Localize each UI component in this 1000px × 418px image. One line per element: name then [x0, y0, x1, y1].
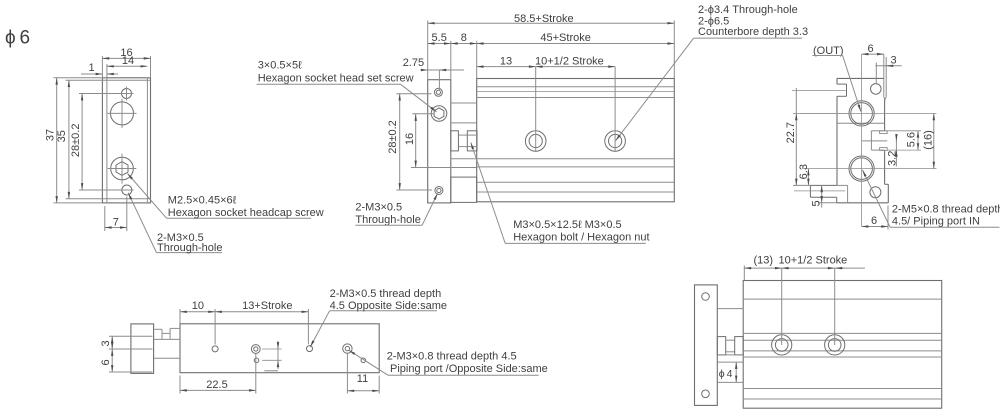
view2 dimension 58.5+Stroke: [428, 13, 675, 80]
view2 body profile line b: [477, 91, 675, 93]
view5 dimension 10+1/2 Stroke: [779, 255, 865, 269]
view3 dimension 22.7: [785, 88, 849, 185]
view1 plate inner right edge line: [146, 78, 148, 203]
view4 hole C thread hole: [307, 346, 313, 352]
view4 dimension 6: [100, 349, 153, 372]
view2 plate hole bottom (2-M3 through-hole): [435, 187, 443, 195]
view4 cylinder body outline: [180, 324, 379, 373]
view2 cylinder body outline: [477, 79, 675, 202]
svg-text:16: 16: [404, 133, 416, 145]
view5 bolt head: [717, 337, 725, 355]
view4 hole D piping port: [343, 344, 352, 353]
svg-text:Hexagon bolt / Hexagon nut: Hexagon bolt / Hexagon nut: [513, 231, 649, 243]
view1 leader and label hexagon socket headcap screw: [128, 174, 324, 220]
svg-text:5.6: 5.6: [906, 132, 918, 147]
view3 slot at right edge: [884, 54, 886, 100]
svg-text:45+Stroke: 45+Stroke: [540, 32, 590, 44]
view4 rod plate outline: [131, 324, 154, 374]
view3 vertical centerline: [861, 54, 863, 226]
svg-text:58.5+Stroke: 58.5+Stroke: [514, 13, 574, 25]
view1 bore size label phi6: [5, 28, 30, 49]
svg-text:6.3: 6.3: [798, 164, 810, 179]
view2 body profile line a: [477, 86, 675, 88]
view3 rod bore lower (IN): [849, 156, 874, 181]
svg-text:(16): (16): [923, 130, 935, 150]
view1 hole H1 small through-hole top: [120, 87, 134, 101]
view1 end plate outline: [102, 78, 150, 203]
view3 body left edge upper: [836, 78, 838, 84]
view3 body right edge: [884, 99, 886, 184]
view2 leader and label 2-M3x0.5 through-hole: [355, 193, 437, 226]
svg-text:Hexagon socket head set screw: Hexagon socket head set screw: [258, 73, 414, 85]
svg-text:2-M3×0.5 thread depth: 2-M3×0.5 thread depth: [330, 288, 442, 300]
view5 body profile line d: [743, 350, 942, 352]
svg-text:2-ϕ3.4 Through-hole: 2-ϕ3.4 Through-hole: [698, 4, 798, 16]
view2 plate hole top (2-M3 through-hole): [434, 88, 442, 96]
view2 body profile line f: [477, 181, 675, 183]
view3 dimension 6.3: [798, 164, 810, 185]
view4 guide block bottom line: [154, 357, 180, 359]
svg-text:2-M3×0.8 thread depth 4.5: 2-M3×0.8 thread depth 4.5: [387, 351, 517, 363]
svg-text:10+1/2 Stroke: 10+1/2 Stroke: [535, 55, 604, 67]
svg-text:(13): (13): [754, 255, 774, 267]
svg-text:Hexagon socket headcap screw: Hexagon socket headcap screw: [168, 207, 324, 219]
view5 dimension phi4: [719, 362, 737, 382]
svg-text:5.5: 5.5: [432, 32, 447, 44]
view4 leader and label 2-M3x0.5 thread depth: [310, 288, 447, 347]
view3 dimension 3: [875, 55, 901, 84]
svg-text:5: 5: [811, 200, 823, 206]
view1 dimension 7: [105, 197, 127, 232]
view2 dimension 5.5: [428, 32, 451, 80]
view5 bolt nut: [735, 337, 744, 355]
svg-text:22.7: 22.7: [785, 122, 797, 143]
svg-text:ϕ 4: ϕ 4: [719, 368, 733, 380]
view2 bolt shank lines: [458, 135, 467, 147]
view1 plate inner top line: [102, 79, 150, 81]
view4 bolt head: [154, 329, 162, 333]
view2 centerline right hole: [614, 67, 616, 152]
view5 centerline right: [834, 268, 836, 345]
view1 dimension 14: [107, 55, 147, 78]
view3 OUT port centerline: [792, 89, 846, 91]
view1 plate inner left edge line: [106, 78, 108, 203]
view5 piston bore right: [825, 335, 845, 355]
view2 body profile line c: [477, 97, 675, 99]
view3 screw hole top: [871, 84, 882, 95]
view1 dimension 37: [45, 78, 103, 203]
view5 centerline left: [781, 268, 783, 345]
view3 upper bore horizontal centerline: [800, 112, 875, 114]
view2 body profile line d: [477, 158, 675, 160]
view2 hexagon nut: [467, 131, 477, 151]
view2 centerline left hole: [535, 67, 537, 152]
svg-text:37: 37: [45, 129, 57, 141]
view4 nut: [170, 328, 180, 333]
view2 dimension 16: [404, 114, 477, 168]
view2 body profile line g: [477, 191, 675, 193]
svg-text:M3×0.5×12.5ℓ M3×0.5: M3×0.5×12.5ℓ M3×0.5: [513, 219, 621, 231]
view4 dimension 3: [100, 336, 153, 349]
view3 dimension 6 bottom: [862, 206, 888, 230]
view3 dimension 5.6: [885, 131, 921, 150]
view2 rod plate outline: [428, 80, 451, 203]
svg-text:4.5/ Piping port IN: 4.5/ Piping port IN: [892, 215, 980, 227]
svg-text:ϕ 6: ϕ 6: [5, 28, 30, 49]
svg-text:7: 7: [113, 217, 119, 229]
view5 plate hole top: [702, 293, 710, 301]
svg-text:28±0.2: 28±0.2: [387, 120, 399, 154]
view5 body profile line f: [743, 388, 942, 390]
view3 IN port centerline: [794, 190, 845, 192]
view2 dimension 10+1/2 Stroke: [535, 55, 615, 67]
view5 body profile line c: [743, 339, 942, 341]
view4 dimension 22.5: [180, 354, 256, 394]
view4 dimension 10: [180, 300, 215, 345]
view5 body profile line g: [743, 398, 942, 400]
view5 bolt shank lines: [726, 340, 735, 352]
view3 IN port boss: [810, 185, 837, 202]
view3 nut pocket: [862, 131, 887, 151]
view2 dimension 45+Stroke: [477, 32, 675, 79]
svg-text:22.5: 22.5: [206, 379, 227, 391]
view4 bolt base line: [154, 333, 180, 339]
view5 gap top line: [717, 308, 743, 310]
view5 body profile line a: [743, 298, 942, 300]
view2 leader and label hexagon socket head set screw: [257, 60, 437, 112]
svg-text:13+Stroke: 13+Stroke: [242, 300, 292, 312]
view4 bolt shank line: [162, 332, 170, 334]
svg-text:11: 11: [357, 373, 368, 385]
svg-text:Counterbore depth 3.3: Counterbore depth 3.3: [698, 26, 808, 38]
view2 body profile line e: [477, 166, 675, 168]
view1 leader and label 2-M3x0.5 through-hole: [128, 193, 222, 254]
svg-text:14: 14: [122, 55, 134, 67]
view4 offset mini dimension: [262, 341, 282, 371]
view2 dimension 13: [477, 55, 536, 67]
view1 dimension 16: [102, 47, 150, 78]
svg-text:35: 35: [56, 130, 68, 142]
view2 boss band upper line between plate and body: [451, 122, 477, 124]
view2 leader and label M3 hexagon bolt and nut: [471, 143, 650, 244]
svg-text:8: 8: [461, 32, 467, 44]
view4 hole B2 small: [254, 358, 259, 363]
view1 plate inner bottom line: [102, 198, 150, 200]
svg-text:10+1/2 Stroke: 10+1/2 Stroke: [779, 255, 848, 267]
view2 set screw hole: [431, 106, 447, 122]
view1 hole H3 rod hole lower with hexagon socket screw: [108, 154, 137, 184]
svg-text:Piping port /Opposite Side:sam: Piping port /Opposite Side:same: [390, 363, 548, 375]
svg-text:3×0.5×5ℓ: 3×0.5×5ℓ: [258, 60, 302, 72]
svg-text:3: 3: [890, 55, 896, 67]
view5 guide rod band line b: [717, 361, 743, 363]
svg-text:2-M5×0.8 thread depth: 2-M5×0.8 thread depth: [892, 204, 1000, 216]
view3 dimension (16): [875, 113, 937, 168]
svg-text:13: 13: [500, 55, 512, 67]
view3 leader and label 2-M5 piping port IN: [863, 170, 1000, 227]
view3 dimension 5: [811, 185, 837, 207]
view4 dimension 11: [347, 354, 379, 394]
svg-text:6: 6: [100, 359, 112, 365]
view2 hexagon bolt head: [451, 131, 459, 151]
view3 IN port interior top line: [837, 185, 848, 202]
svg-text:28±0.2: 28±0.2: [70, 124, 82, 158]
view3 bottom-right step: [885, 184, 889, 203]
view5 piston bore left: [772, 335, 792, 355]
view3 body bottom edge: [837, 202, 889, 204]
svg-text:1: 1: [88, 62, 94, 74]
view3 body outline top edge: [837, 77, 884, 79]
view4 hole D2 small: [361, 358, 366, 363]
view5 rod plate outline: [695, 285, 718, 406]
view3 central boss line: [837, 122, 885, 124]
svg-text:3.2: 3.2: [886, 151, 898, 166]
view2 boss band lower line between plate and body: [451, 158, 477, 160]
view3 lower bore horizontal centerline: [802, 168, 875, 170]
view2 dimension 28 plus-minus 0.2: [387, 94, 432, 190]
view5 guide rod band line a: [717, 354, 743, 356]
view2 dimension 2.75: [403, 57, 464, 91]
view5 cylinder body outline: [743, 281, 942, 409]
svg-text:3: 3: [100, 340, 112, 346]
svg-text:2.75: 2.75: [403, 57, 424, 69]
view2 leader and label counterbore through-holes: [616, 4, 808, 141]
view2 gap upper line between plate and body: [451, 102, 477, 104]
view3 label OUT with leader: [812, 45, 860, 112]
view5 guide rod band line c: [717, 381, 743, 383]
view5 dimension (13): [744, 255, 781, 281]
view4 hole B piping port with pilot: [251, 345, 260, 354]
view4 leader and label piping port: [349, 350, 548, 375]
view3 dimension 3.2: [886, 134, 898, 167]
view1 dimension 28 plus-minus 0.2: [70, 94, 120, 191]
svg-text:6: 6: [871, 215, 877, 227]
svg-text:10: 10: [192, 300, 204, 312]
view5 body profile line b: [743, 332, 942, 334]
view3 rod bore upper (OUT): [849, 101, 874, 126]
view2 lower guide block between plate and body: [451, 177, 477, 202]
view3 OUT port recess: [837, 84, 847, 96]
view3 screw hole bottom: [870, 187, 881, 198]
view1 dimension 35: [56, 80, 102, 199]
view2 dimension 8: [451, 32, 477, 44]
view2 counterbore hole right: [605, 131, 626, 152]
view5 body profile line e: [743, 356, 942, 358]
svg-text:4.5 Opposite Side:same: 4.5 Opposite Side:same: [330, 300, 447, 312]
view3 dimension 6 top: [862, 43, 884, 55]
view3 body left edge middle: [836, 96, 838, 185]
view4 hole A: [212, 346, 218, 352]
view2 counterbore hole left: [525, 131, 546, 152]
svg-text:Through-hole: Through-hole: [157, 242, 222, 254]
svg-text:M2.5×0.45×6ℓ: M2.5×0.45×6ℓ: [168, 195, 237, 207]
svg-text:2-M3×0.5: 2-M3×0.5: [355, 201, 402, 213]
svg-text:6: 6: [867, 43, 873, 55]
view5 plate hole bottom: [702, 390, 710, 398]
svg-text:Through-hole: Through-hole: [355, 214, 420, 226]
view1 hole H2 rod hole upper: [108, 99, 137, 128]
view4 dimension 13+Stroke: [215, 300, 308, 344]
view1 hole H4 small through-hole bottom: [120, 185, 134, 195]
view1 dimension 1: [81, 62, 118, 74]
